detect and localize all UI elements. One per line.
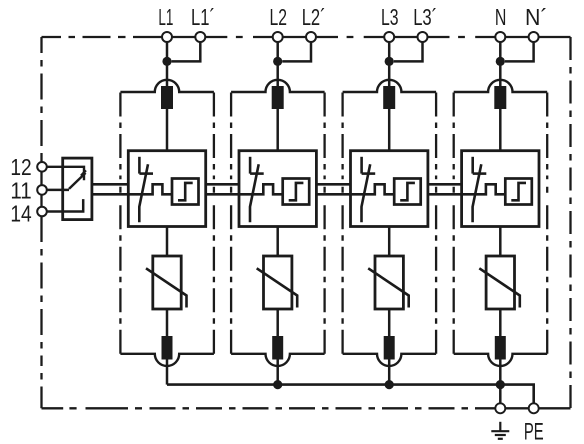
spark gap electrode tick [250, 172, 264, 175]
spark gap blade [362, 164, 371, 222]
plug contact bottom L2 [272, 336, 283, 360]
module N border bottom with plug arc [454, 354, 548, 366]
wire L3&#180; terminal to junction [394, 42, 423, 61]
module L3 border top with plug arc [343, 80, 437, 92]
varistor L1 body [153, 256, 181, 309]
ground symbol [491, 422, 509, 439]
svg-text:L1´: L1´ [191, 4, 215, 30]
varistor L2 body [264, 256, 292, 309]
wire varistor to bottom contact [166, 309, 169, 337]
module N border right (dash-dot) [546, 93, 548, 354]
trigger unit L1 box [172, 179, 199, 205]
plug contact bottom N [495, 336, 506, 360]
wire N terminal to junction [499, 42, 502, 61]
trigger step symbol [289, 183, 304, 200]
terminal 12 [37, 162, 47, 172]
wire spark gap to varistor [276, 227, 279, 257]
wire spark gap to varistor [166, 227, 169, 257]
svg-text:L2: L2 [270, 4, 288, 30]
wire spark gap to varistor [499, 227, 502, 257]
spark gap module N box [462, 151, 539, 227]
wire N&#180; terminal to junction [505, 42, 534, 61]
trigger step symbol [178, 183, 193, 200]
varistor L3 body [375, 256, 403, 309]
wire bottom contact to PE bus [166, 360, 169, 385]
svg-text:L1: L1 [158, 4, 173, 30]
module L1 border left (dash-dot) [119, 93, 121, 354]
svg-text:L3: L3 [381, 4, 399, 30]
trigger unit L2 box [283, 179, 310, 205]
module N border left (dash-dot) [453, 93, 455, 354]
wire L1&#180; terminal to junction [172, 42, 201, 61]
spark gap electrode lead [471, 157, 474, 174]
wire varistor to bottom contact [499, 309, 502, 337]
plug contact bottom L3 [384, 336, 395, 360]
module L1 border right (dash-dot) [213, 93, 215, 354]
terminal 14 [37, 207, 47, 217]
svg-text:N: N [495, 4, 507, 30]
trigger pulse line [351, 184, 395, 194]
trigger pulse line [128, 184, 172, 194]
svg-text:L3´: L3´ [413, 4, 437, 30]
terminal N [495, 32, 505, 42]
plug contact top N [494, 86, 506, 109]
wire L2&#180; terminal to junction [282, 42, 311, 61]
plug contact top L1 [161, 86, 173, 109]
varistor L3 stroke [368, 268, 409, 307]
outer enclosure border top (dash-dot) [42, 36, 571, 38]
wire junction to top plug contact [166, 61, 169, 87]
wire varistor to bottom contact [276, 309, 279, 337]
svg-text:11: 11 [10, 177, 31, 203]
module N border top with plug arc [454, 80, 548, 92]
outer enclosure border right (dash-dot) [569, 37, 571, 408]
wire junction to top plug contact [388, 61, 391, 87]
spark gap electrode lead [138, 157, 141, 174]
terminal L1&#180; [195, 32, 205, 42]
wire varistor to bottom contact [388, 309, 391, 337]
svg-text:12: 12 [10, 154, 31, 180]
terminal 11 [37, 185, 47, 195]
PE terminal [529, 403, 539, 413]
wire top contact to spark gap [276, 109, 279, 151]
spark gap module L1 box [128, 151, 205, 227]
spark gap electrode lead [360, 157, 363, 174]
spark gap electrode lead [249, 157, 252, 174]
terminal L2&#180; [306, 32, 316, 42]
remote contact box [63, 158, 92, 220]
junction node L2 [273, 57, 282, 66]
terminal L3&#180; [418, 32, 428, 42]
module L1 border top with plug arc [120, 80, 213, 92]
trigger unit L3 box [394, 179, 421, 205]
wire L2 terminal to junction [276, 42, 279, 61]
spark gap blade [473, 164, 482, 222]
wire bottom contact to PE bus [276, 360, 279, 385]
earth terminal [495, 403, 505, 413]
wire top contact to spark gap [166, 109, 169, 151]
svg-text:L2´: L2´ [302, 4, 326, 30]
wire bottom contact to PE bus [388, 360, 391, 385]
spark gap blade [139, 164, 148, 222]
module L3 border left (dash-dot) [341, 93, 343, 354]
trigger pulse line [239, 184, 283, 194]
trigger step symbol [511, 183, 526, 200]
wire 12 to NC contact [47, 167, 84, 180]
svg-text:N´: N´ [525, 4, 548, 30]
varistor N body [486, 256, 514, 309]
outer enclosure border left (dash-dot) [40, 37, 42, 408]
junction node L1 [162, 57, 171, 66]
wire junction to top plug contact [276, 61, 279, 87]
monitoring bus upper wire [92, 183, 462, 186]
terminal L3 [384, 32, 394, 42]
outer enclosure border bottom (dash-dot) [42, 407, 571, 409]
module L2 border left (dash-dot) [230, 93, 232, 354]
trigger unit N box [505, 179, 532, 205]
varistor L1 stroke [146, 268, 187, 307]
spark gap electrode tick [139, 172, 153, 175]
trigger step symbol [400, 183, 415, 200]
wire bottom contact to PE bus [499, 360, 502, 385]
wire L3 terminal to junction [388, 42, 391, 61]
wire PE bus to PE terminal [500, 385, 533, 404]
wire top contact to spark gap [499, 109, 502, 151]
varistor N stroke [479, 268, 520, 307]
monitoring bus lower wire [92, 193, 462, 196]
module L2 border top with plug arc [231, 80, 325, 92]
spark gap module L2 box [239, 151, 316, 227]
plug contact top L3 [383, 86, 395, 109]
terminal L2 [273, 32, 283, 42]
spark gap electrode tick [473, 172, 487, 175]
module L3 border bottom with plug arc [343, 354, 437, 366]
junction node L3 [385, 57, 394, 66]
plug contact top L2 [272, 86, 284, 109]
wire junction to top plug contact [499, 61, 502, 87]
module L2 border bottom with plug arc [231, 354, 325, 366]
wire 11 to common [47, 189, 69, 192]
junction node L2 on PE bus [273, 380, 282, 389]
junction node N on PE bus [496, 380, 505, 389]
PE bus wire [167, 383, 500, 386]
junction node L3 on PE bus [385, 380, 394, 389]
junction node N [496, 57, 505, 66]
varistor L2 stroke [257, 268, 298, 307]
wire PE bus to earth terminal [499, 385, 502, 404]
spark gap blade [250, 164, 259, 222]
module L1 border bottom with plug arc [120, 354, 213, 366]
blade contact tick [81, 170, 86, 175]
wire 14 to NO contact [47, 199, 83, 211]
wire spark gap to varistor [388, 227, 391, 257]
wire top contact to spark gap [388, 109, 391, 151]
plug contact bottom L1 [162, 336, 173, 360]
svg-text:PE: PE [524, 419, 544, 444]
terminal N&#180; [529, 32, 539, 42]
svg-text:14: 14 [10, 201, 31, 227]
changeover blade [69, 173, 86, 189]
wire L1 terminal to junction [166, 42, 169, 61]
spark gap electrode tick [362, 172, 376, 175]
module L2 border right (dash-dot) [323, 93, 325, 354]
spark gap module L3 box [351, 151, 428, 227]
terminal L1 [162, 32, 172, 42]
trigger pulse line [462, 184, 506, 194]
module L3 border right (dash-dot) [435, 93, 437, 354]
